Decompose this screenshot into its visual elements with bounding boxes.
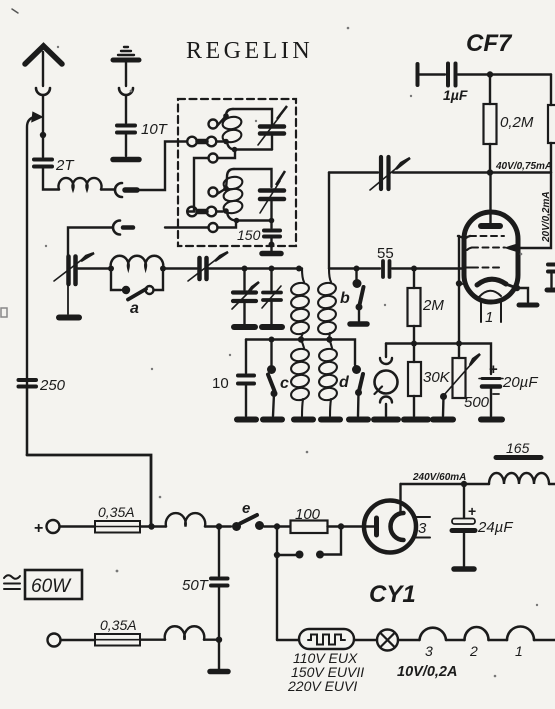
dial lamp xyxy=(377,630,398,651)
heater winding 2 xyxy=(465,627,489,640)
dashed band-switch box xyxy=(178,99,296,246)
wire tap rail xyxy=(246,340,355,366)
ground bar xyxy=(237,417,256,423)
svg-text:240V/60mA: 240V/60mA xyxy=(412,472,466,483)
capacitor 250 on bus xyxy=(26,388,28,455)
svg-text:a: a xyxy=(130,300,139,317)
node xyxy=(269,337,275,343)
plug connector ground lead xyxy=(119,88,133,95)
node xyxy=(296,266,302,272)
variable capacitor band series xyxy=(197,258,202,279)
switch d xyxy=(352,365,361,374)
coil column right upper (from grid line) xyxy=(329,269,331,283)
resistor right edge xyxy=(550,75,552,106)
contact circle lower xyxy=(209,154,218,163)
plug jack symbol xyxy=(115,183,122,197)
screen grid arrow xyxy=(506,245,516,251)
svg-text:40V/0,75mA: 40V/0,75mA xyxy=(495,161,552,172)
capacitor 24uF electrolytic xyxy=(463,484,465,518)
capacitor 55 xyxy=(381,261,385,277)
plug pair lower band xyxy=(187,207,197,217)
svg-text:55: 55 xyxy=(377,245,394,262)
wire xyxy=(163,267,197,269)
variable capacitor grid coupling xyxy=(329,171,378,173)
coil L2 upper xyxy=(226,109,233,116)
node xyxy=(411,341,417,347)
trimmer capacitor shunt 2 xyxy=(270,269,272,291)
svg-text:CF7: CF7 xyxy=(466,30,513,57)
barretter ballast resistor xyxy=(299,629,354,649)
wire heater feed down xyxy=(276,555,278,640)
heater winding 3 xyxy=(420,628,447,640)
variable capacitor upper tank xyxy=(260,124,284,129)
capacitor 10 xyxy=(238,374,254,378)
svg-text:2T: 2T xyxy=(55,157,75,174)
approx mains symbol xyxy=(4,575,20,579)
grid1 outside lead xyxy=(458,236,464,238)
wire B+ down to screen xyxy=(509,173,551,249)
node xyxy=(354,266,360,272)
capacitor 10T xyxy=(117,124,135,128)
node xyxy=(216,523,222,529)
wire xyxy=(392,267,464,269)
switch e xyxy=(232,522,241,531)
contact circle bottom xyxy=(209,223,218,232)
box 60W xyxy=(25,570,82,599)
svg-text:0,35A: 0,35A xyxy=(100,617,137,633)
antenna xyxy=(25,46,62,64)
potentiometer 500 xyxy=(453,358,466,398)
rectifier tube CY1 xyxy=(364,501,416,553)
node coil top tap xyxy=(223,113,229,119)
ground bar xyxy=(349,417,368,423)
svg-text:+: + xyxy=(489,361,498,378)
grid 2 dashed with lead xyxy=(472,247,505,249)
wire xyxy=(101,188,114,190)
wire 240V rail xyxy=(401,483,465,485)
lower tuned circuit: contact circle xyxy=(209,188,218,197)
wire tank top lower xyxy=(234,169,272,187)
svg-text:220V EUVI: 220V EUVI xyxy=(287,678,357,694)
heater winding 1 xyxy=(507,627,534,641)
plug connector antenna xyxy=(36,88,50,95)
tube CF7 envelope xyxy=(464,212,518,302)
resistor 0,2M xyxy=(489,75,491,105)
svg-text:3: 3 xyxy=(425,643,433,659)
svg-text:1µF: 1µF xyxy=(443,87,468,103)
svg-text:1: 1 xyxy=(515,643,523,659)
wire xyxy=(43,169,59,190)
node 150 junction xyxy=(269,218,275,224)
svg-text:2M: 2M xyxy=(422,297,444,314)
plug pair upper band xyxy=(187,137,197,147)
node coil tap xyxy=(223,139,229,145)
fuse 0,35A bottom xyxy=(95,634,140,646)
trimmer capacitor antenna series xyxy=(67,256,69,284)
svg-text:20V/0,2mA: 20V/0,2mA xyxy=(541,191,552,243)
cathode lead up xyxy=(399,484,401,512)
wire down to capacitor 10 xyxy=(245,340,247,374)
svg-text:10T: 10T xyxy=(141,121,169,138)
node tap right xyxy=(326,336,332,342)
ground (earth) symbol xyxy=(118,47,134,55)
terminal bar 1uF left xyxy=(416,64,420,85)
node xyxy=(274,523,280,529)
svg-text:c: c xyxy=(280,375,289,392)
node xyxy=(269,266,275,272)
node antenna-bus junction xyxy=(40,132,46,138)
ground bar xyxy=(350,321,367,327)
shorting switch contacts xyxy=(277,527,296,556)
ground bar xyxy=(59,315,79,321)
node coil bottom xyxy=(232,147,238,153)
switch b xyxy=(355,269,357,280)
svg-text:10: 10 xyxy=(212,375,229,392)
svg-text:+: + xyxy=(468,503,476,519)
svg-text:50T: 50T xyxy=(182,577,210,594)
ground bar xyxy=(404,417,428,423)
node tap left xyxy=(298,336,304,342)
wire heater chain xyxy=(277,639,299,641)
svg-text:d: d xyxy=(339,374,350,391)
node xyxy=(456,280,462,286)
svg-text:0,35A: 0,35A xyxy=(98,504,135,520)
node xyxy=(487,169,493,175)
heater arc xyxy=(479,291,501,297)
node at box edge xyxy=(269,242,275,248)
capacitor 150 xyxy=(270,222,272,228)
node coil bottom lower xyxy=(234,218,240,224)
filter choke 165 xyxy=(464,483,489,485)
node xyxy=(108,266,114,272)
cathode arc xyxy=(391,513,404,540)
switch a bypass xyxy=(111,269,121,291)
ground bar xyxy=(262,324,282,330)
resistor 30K xyxy=(413,344,415,363)
svg-text:20µF: 20µF xyxy=(502,374,538,391)
wire xyxy=(357,267,381,269)
svg-text:2: 2 xyxy=(469,643,478,659)
plug jack symbol lower xyxy=(113,221,120,235)
anode bar xyxy=(364,525,374,527)
wire antenna lead xyxy=(42,52,44,86)
coil column left upper xyxy=(302,269,304,283)
coil La antenna xyxy=(111,256,164,269)
node xyxy=(338,523,344,529)
capacitor right edge xyxy=(548,263,555,267)
grid 1 dashed xyxy=(470,235,504,237)
chassis bar xyxy=(262,251,281,257)
node xyxy=(242,266,248,272)
svg-text:+: + xyxy=(34,520,43,537)
ground bar xyxy=(481,417,502,423)
svg-text:REGELIN: REGELIN xyxy=(186,38,313,64)
choke coil bottom xyxy=(165,626,205,639)
wire 40V node line xyxy=(393,171,551,173)
wire to upper band plug xyxy=(137,142,187,191)
node coil top tap lower xyxy=(223,186,229,192)
wire main tuning line xyxy=(78,267,111,269)
coil column left lower xyxy=(301,340,304,349)
node xyxy=(461,481,467,487)
switch c xyxy=(270,340,272,366)
tuning indicator lamp xyxy=(385,344,387,358)
node xyxy=(216,637,222,643)
svg-text:3: 3 xyxy=(418,520,427,537)
wire tank top xyxy=(233,109,272,124)
svg-text:24µF: 24µF xyxy=(477,519,513,536)
svg-text:150: 150 xyxy=(237,227,261,243)
ground bar xyxy=(294,417,313,423)
ground bar xyxy=(374,417,398,423)
variable capacitor lower tank xyxy=(260,188,284,193)
svg-text:500: 500 xyxy=(464,394,490,411)
choke coil top xyxy=(152,525,167,527)
upper tuned circuit: contact circle xyxy=(209,120,218,129)
cathode side lead xyxy=(514,285,520,291)
coil L3 lower xyxy=(226,169,234,189)
node xyxy=(456,341,462,347)
wire cathode down from tube xyxy=(458,236,460,358)
coil L1 xyxy=(59,178,102,190)
node xyxy=(411,266,417,272)
wire grid line down to coil xyxy=(328,173,330,269)
svg-text:b: b xyxy=(340,290,350,307)
ground bar xyxy=(321,417,340,423)
svg-text:0,2M: 0,2M xyxy=(500,114,534,131)
heater pins xyxy=(480,300,482,322)
chassis bar end xyxy=(113,157,139,163)
coil column right lower xyxy=(330,340,333,349)
anode plate xyxy=(481,223,500,229)
cathode xyxy=(477,279,506,285)
wire tank bottom xyxy=(235,148,273,150)
heater stubs xyxy=(413,516,430,518)
svg-text:10V/0,2A: 10V/0,2A xyxy=(397,664,457,680)
resistor 2M xyxy=(413,269,415,289)
svg-text:30K: 30K xyxy=(423,369,451,386)
node xyxy=(160,266,166,272)
capacitor 50T xyxy=(218,527,220,577)
grid 3 dashed xyxy=(472,267,501,269)
svg-text:165: 165 xyxy=(506,440,530,456)
svg-text:250: 250 xyxy=(39,377,66,394)
trimmer capacitor shunt 1 xyxy=(243,269,245,291)
wire tank bottom lower xyxy=(237,219,272,221)
capacitor 2T xyxy=(34,158,52,162)
svg-text:e: e xyxy=(242,500,250,517)
resistor 100 xyxy=(291,521,328,534)
wire cathode rail xyxy=(386,344,491,375)
svg-text:1: 1 xyxy=(485,309,493,326)
node xyxy=(487,71,493,77)
wire xyxy=(209,267,302,269)
wire bus corner to + line xyxy=(27,455,151,527)
svg-text:60W: 60W xyxy=(31,576,72,597)
svg-text:100: 100 xyxy=(295,506,321,523)
node xyxy=(148,523,154,529)
ground bar xyxy=(210,669,228,675)
wire AGC bus with arrow xyxy=(27,117,34,455)
terminal lower xyxy=(48,634,61,647)
capacitor 1uF xyxy=(419,73,445,75)
ground bar xyxy=(454,566,474,572)
fuse 0,35A top xyxy=(95,521,140,533)
wire lower band to trimmer xyxy=(68,228,112,256)
ground bar xyxy=(433,417,453,423)
svg-text:CY1: CY1 xyxy=(369,581,416,608)
ground bar xyxy=(234,324,255,330)
wire to switch b xyxy=(329,267,357,269)
ground bar xyxy=(263,417,282,423)
